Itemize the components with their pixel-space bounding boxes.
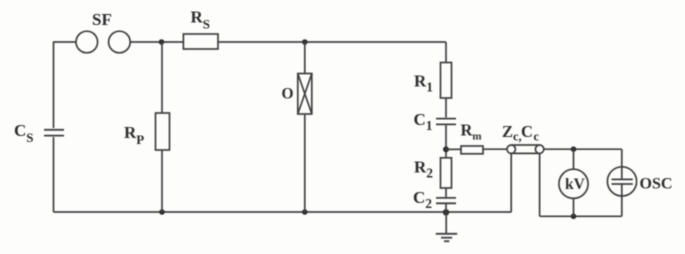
- wire OSC branch upper: [621, 149, 623, 179]
- node bottom of Rp: [159, 209, 165, 215]
- node bottom of O: [302, 209, 308, 215]
- wire Rp branch lower: [161, 150, 163, 212]
- node bottom of C2 ground: [443, 209, 449, 215]
- wire kV branch upper: [573, 149, 575, 169]
- node kV top: [571, 146, 577, 152]
- resistor Rs: [183, 34, 218, 49]
- svg-text:O: O: [282, 86, 294, 103]
- wire top rail left segment: [53, 41, 76, 43]
- oscilloscope OSC circle with plates: [607, 167, 636, 196]
- wire right column top: [445, 42, 447, 63]
- coaxial cable Zc Cc: [507, 145, 544, 153]
- sphere gap SF left sphere: [76, 31, 98, 53]
- wire meter loop bottom rail: [540, 215, 622, 217]
- node measurement tap: [443, 146, 449, 152]
- wire R1 to C1: [445, 98, 447, 118]
- wire cable right shield down: [539, 153, 541, 216]
- wire cable left shield down: [510, 153, 512, 212]
- wire O branch lower: [304, 114, 306, 212]
- wire bottom rail: [54, 211, 512, 213]
- wire top rail SF to Rs: [130, 41, 183, 43]
- svg-text:OSC: OSC: [640, 176, 673, 193]
- voltmeter kV circle: [559, 169, 588, 198]
- wire left vertical lower: [53, 137, 55, 212]
- wire Rm to cable: [484, 148, 508, 150]
- wire C2 to bottom rail: [445, 204, 447, 212]
- node top of O branch: [302, 39, 308, 45]
- test object O box with cross: [298, 74, 312, 115]
- wire top rail Rs to right corner: [218, 41, 446, 43]
- wire R2 to C2: [445, 188, 447, 197]
- node kV bottom: [571, 214, 577, 220]
- svg-text:kV: kV: [565, 176, 586, 193]
- wire kV branch lower: [573, 198, 575, 216]
- wire OSC branch lower: [621, 185, 623, 217]
- wire tap to Rm: [446, 148, 461, 150]
- ground symbol: [436, 212, 457, 241]
- wire C1 to tap node: [445, 125, 447, 157]
- resistor Rp: [156, 113, 170, 150]
- capacitor C1: [436, 119, 456, 125]
- wire left vertical upper: [53, 42, 55, 128]
- svg-text:SF: SF: [92, 10, 112, 29]
- wire Rp branch upper: [161, 42, 163, 113]
- sphere gap SF right sphere: [109, 31, 131, 53]
- wire cable to meter loop: [544, 148, 622, 150]
- capacitor Cs: [44, 130, 64, 136]
- capacitor C2: [436, 198, 456, 203]
- resistor R2: [441, 158, 452, 188]
- resistor Rm: [461, 146, 483, 154]
- node top of Rp branch: [159, 39, 165, 45]
- resistor R1: [441, 63, 452, 99]
- wire O branch upper: [304, 42, 306, 74]
